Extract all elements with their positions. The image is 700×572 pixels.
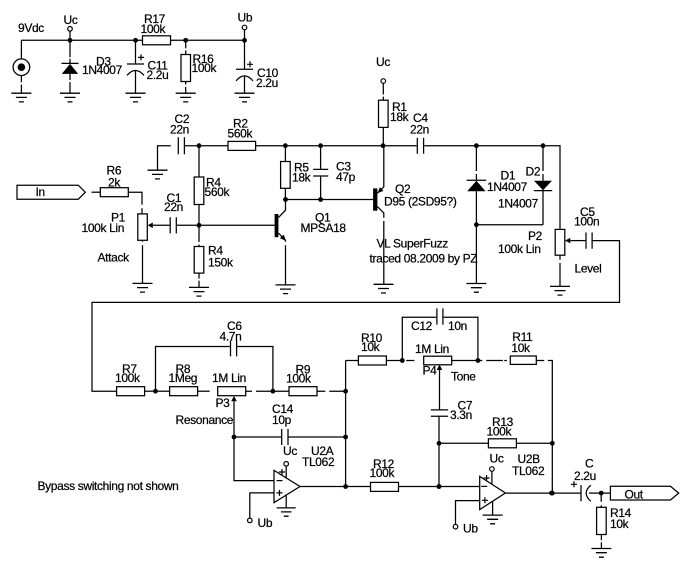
svg-text:100k Lin: 100k Lin	[498, 242, 541, 256]
svg-text:1M Lin: 1M Lin	[415, 342, 449, 356]
svg-text:18k: 18k	[292, 171, 312, 185]
svg-text:Uc: Uc	[64, 13, 78, 27]
svg-text:Uc: Uc	[376, 55, 390, 69]
svg-text:18k: 18k	[390, 110, 410, 124]
svg-text:P2: P2	[528, 229, 543, 243]
svg-text:100k Lin: 100k Lin	[82, 221, 125, 235]
svg-text:C12: C12	[411, 319, 433, 333]
svg-text:traced 08.2009 by PZ: traced 08.2009 by PZ	[370, 252, 478, 266]
svg-text:9Vdc: 9Vdc	[18, 21, 44, 35]
svg-text:Ub: Ub	[238, 11, 253, 25]
svg-text:1N4007: 1N4007	[487, 180, 528, 194]
svg-text:1Meg: 1Meg	[169, 371, 198, 385]
svg-text:100k: 100k	[487, 425, 513, 439]
svg-text:Out: Out	[625, 488, 644, 502]
svg-text:MPSA18: MPSA18	[301, 221, 347, 235]
svg-text:TL062: TL062	[302, 455, 335, 469]
svg-text:1M Lin: 1M Lin	[212, 371, 246, 385]
svg-text:22n: 22n	[164, 200, 183, 214]
svg-text:Bypass switching not shown: Bypass switching not shown	[38, 479, 179, 493]
svg-text:2.2u: 2.2u	[256, 76, 278, 90]
svg-text:3.3n: 3.3n	[450, 408, 472, 422]
svg-text:10n: 10n	[448, 319, 467, 333]
svg-text:In: In	[36, 185, 45, 199]
svg-text:100k: 100k	[141, 22, 167, 36]
svg-text:2.2u: 2.2u	[574, 469, 596, 483]
svg-text:10k: 10k	[610, 517, 630, 531]
svg-text:10p: 10p	[272, 413, 292, 427]
svg-text:D2: D2	[526, 165, 541, 179]
svg-text:1N4007: 1N4007	[498, 197, 539, 211]
svg-text:100k: 100k	[286, 372, 312, 386]
svg-text:560k: 560k	[228, 127, 254, 141]
svg-text:Resonance: Resonance	[176, 413, 234, 427]
svg-text:22n: 22n	[410, 123, 429, 137]
svg-text:TL062: TL062	[512, 464, 545, 478]
svg-text:P3: P3	[216, 396, 231, 410]
svg-text:Tone: Tone	[451, 370, 476, 384]
svg-text:Level: Level	[575, 262, 602, 276]
svg-text:560k: 560k	[205, 185, 231, 199]
svg-text:100k: 100k	[370, 466, 396, 480]
svg-text:Uc: Uc	[490, 452, 504, 466]
svg-text:VL SuperFuzz: VL SuperFuzz	[377, 237, 449, 251]
svg-text:47p: 47p	[336, 170, 356, 184]
svg-text:150k: 150k	[208, 256, 234, 270]
svg-text:Ub: Ub	[258, 516, 273, 530]
svg-text:10k: 10k	[361, 340, 381, 354]
svg-text:22n: 22n	[170, 123, 189, 137]
svg-text:10k: 10k	[511, 341, 531, 355]
svg-text:100k: 100k	[115, 371, 141, 385]
svg-text:D95 (2SD95?): D95 (2SD95?)	[384, 195, 457, 209]
svg-text:4.7n: 4.7n	[220, 330, 242, 344]
svg-text:Attack: Attack	[98, 251, 131, 265]
svg-text:1N4007: 1N4007	[82, 63, 123, 77]
svg-text:100n: 100n	[574, 215, 599, 229]
svg-text:100k: 100k	[192, 61, 218, 75]
svg-text:2k: 2k	[108, 176, 121, 190]
svg-text:Ub: Ub	[463, 522, 478, 536]
svg-text:P4: P4	[423, 364, 438, 378]
svg-text:Uc: Uc	[283, 444, 297, 458]
svg-text:2.2u: 2.2u	[147, 68, 169, 82]
